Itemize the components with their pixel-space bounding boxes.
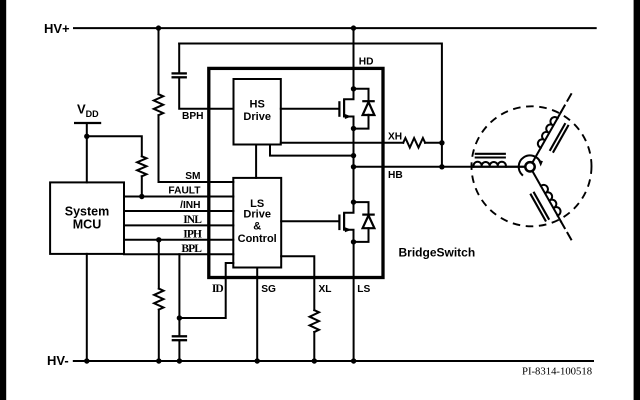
wire VDD to MCU: [86, 136, 88, 182]
svg-text:SM: SM: [185, 171, 200, 182]
junction HV- / MCU: [84, 358, 89, 363]
resistor IPH to HV-: [154, 289, 163, 310]
wire cap BPH top lead: [178, 44, 180, 73]
wire ID pin: [179, 263, 233, 318]
junction IPH sense: [156, 237, 161, 242]
svg-text:XH: XH: [388, 131, 402, 142]
svg-text:&: &: [253, 221, 261, 233]
wire XH inside IC: [281, 142, 403, 144]
wire HV+ rail: [74, 27, 596, 29]
wire MCU to HV-: [86, 254, 88, 361]
junction HB tap: [351, 164, 356, 169]
motor winding left (HB phase): [474, 166, 525, 168]
wire HS gate: [281, 108, 340, 110]
wire BPL drop: [178, 254, 180, 318]
wire resistor to HV-: [158, 310, 160, 361]
motor rotation arrow: [519, 155, 541, 174]
svg-text:SG: SG: [261, 284, 276, 295]
svg-text:XL: XL: [319, 284, 332, 295]
junction LS source: [351, 239, 356, 244]
svg-text:HB: HB: [388, 170, 403, 181]
wire LS source to LS pin: [353, 242, 355, 361]
node VDD symbol: [74, 102, 101, 137]
junction HV- / IPH resistor: [156, 358, 161, 363]
junction FAULT pull-up: [139, 194, 144, 199]
junction ID node: [177, 315, 182, 320]
wire HS source down: [353, 129, 355, 203]
svg-text:HS: HS: [250, 99, 265, 111]
motor hub: [525, 162, 534, 171]
svg-text:IPH: IPH: [183, 228, 202, 240]
wire LS gate: [281, 220, 339, 222]
svg-text:HD: HD: [359, 57, 374, 68]
resistor XH: [403, 138, 425, 148]
svg-text:FAULT: FAULT: [168, 186, 201, 197]
junction HV- / XL resistor: [312, 358, 317, 363]
wire HB: [354, 166, 526, 168]
wire INL: [124, 224, 233, 226]
svg-text:ID: ID: [212, 283, 224, 295]
motor winding upper-right: [533, 118, 558, 162]
junction VDD node: [84, 134, 89, 139]
wire ID node to cap: [178, 318, 180, 335]
wire FAULT: [124, 196, 233, 198]
junction HV- / SG: [255, 358, 260, 363]
motor dashed stator circle: [472, 106, 592, 226]
junction HV- / ID cap: [177, 358, 182, 363]
svg-text:MCU: MCU: [73, 218, 101, 232]
junction HV+ / SM resistor: [156, 25, 161, 30]
wire HV- rail: [74, 360, 593, 362]
wire VDD branch to pull-up resistor: [87, 136, 142, 156]
svg-text:INL: INL: [183, 214, 202, 226]
right border bar: [634, 0, 640, 400]
wire HV+ to SM resistor: [158, 28, 160, 94]
wire IPH: [124, 239, 233, 241]
svg-text:/INH: /INH: [180, 200, 200, 211]
box HS Drive: [234, 79, 281, 145]
junction HS source: [351, 126, 356, 131]
wire ID cap to HV-: [178, 342, 180, 361]
junction LS drain: [351, 199, 356, 204]
capacitor BPH: [172, 72, 187, 74]
wire IPH sense resistor drop: [158, 240, 160, 289]
wire resistor to FAULT: [141, 176, 143, 196]
junction HS drain: [351, 86, 356, 91]
svg-text:BPL: BPL: [181, 243, 202, 255]
wire /INH: [124, 210, 233, 212]
svg-text:LS: LS: [357, 284, 370, 295]
capacitor ID: [172, 335, 187, 337]
svg-text:Drive: Drive: [243, 209, 271, 221]
junction HV- / LS: [351, 358, 356, 363]
svg-text:Control: Control: [238, 233, 277, 245]
wire BPH: [179, 78, 233, 109]
wire HS sense: [270, 145, 354, 156]
junction HB node: [439, 164, 444, 169]
transistor HS FET: [338, 101, 340, 117]
left border bar: [0, 0, 6, 400]
wire HD: [353, 28, 355, 89]
svg-text:PI-8314-100518: PI-8314-100518: [522, 366, 592, 378]
wire XL: [281, 256, 314, 310]
resistor pull-up VDD-FAULT: [137, 156, 146, 176]
svg-text:HV+: HV+: [44, 21, 70, 36]
resistor HV+ to SM: [154, 94, 163, 115]
junction HV+ / HD: [351, 25, 356, 30]
wire XH resistor to node: [425, 142, 442, 144]
junction XH node: [439, 140, 444, 145]
junction HS sense: [351, 153, 356, 158]
wire HS Drive to LS box: [255, 145, 257, 178]
wire SM: [159, 115, 234, 182]
IC box BridgeSwitch U1: [209, 68, 383, 277]
svg-text:HV-: HV-: [47, 353, 69, 368]
wire SG: [256, 268, 258, 362]
box System MCU: [50, 182, 124, 254]
transistor LS FET: [338, 215, 340, 231]
box LS Drive & Control: [233, 178, 281, 268]
resistor XL to HV-: [310, 310, 319, 332]
wire BPL: [124, 253, 233, 255]
motor winding lower-right: [533, 171, 558, 215]
svg-text:BridgeSwitch: BridgeSwitch: [399, 246, 476, 260]
wire XL resistor to HV-: [313, 332, 315, 361]
wire bootstrap top: [179, 44, 442, 167]
svg-text:Drive: Drive: [243, 111, 271, 123]
svg-text:System: System: [65, 204, 109, 218]
svg-text:BPH: BPH: [182, 111, 204, 122]
